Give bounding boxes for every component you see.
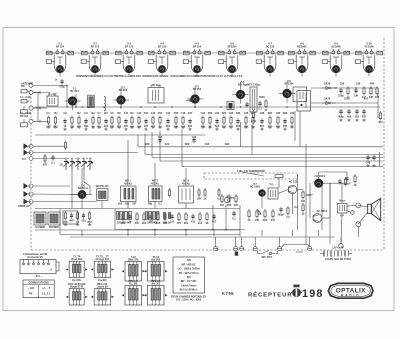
lower band connecting wire [115, 229, 245, 231]
ground [77, 126, 81, 129]
resistor R28 10K [244, 116, 249, 129]
PU coupling parts [43, 154, 48, 166]
input filter box C1 [47, 96, 58, 106]
capacitor 10K [354, 88, 359, 98]
resistor 470 [177, 212, 182, 225]
resistor 1K out [353, 174, 356, 187]
legend transformer T2 T3 T7 [91, 261, 114, 277]
legend transformer MF3-LO [122, 286, 146, 306]
svg-text:330: 330 [283, 125, 288, 128]
chassis terminal [253, 247, 257, 251]
ground [260, 128, 264, 131]
left lower resistor group [63, 211, 68, 224]
svg-text:4K7: 4K7 [378, 121, 383, 124]
svg-text:AC184K: AC184K [331, 45, 341, 48]
capacitor C24 5p6 [215, 118, 220, 128]
ground [229, 126, 233, 129]
svg-text:10K: 10K [369, 96, 374, 99]
svg-text:AC 132K: AC 132K [250, 186, 260, 189]
ground [244, 126, 248, 129]
svg-text:AC185K: AC185K [364, 45, 374, 48]
svg-text:1M: 1M [132, 203, 135, 206]
chassis dashed border right [383, 38, 385, 250]
svg-text:1K1: 1K1 [355, 115, 360, 118]
diode bias [258, 210, 261, 214]
capacitor C9 2K2 [104, 118, 109, 128]
tuning core V-4 [158, 65, 165, 72]
INT POT dark square [235, 252, 238, 256]
svg-text:COUPLAGE DE PUSH: COUPLAGE DE PUSH [325, 258, 351, 261]
svg-text:P.U.: P.U. [22, 158, 27, 161]
svg-text:4M7: 4M7 [69, 219, 74, 222]
svg-text:1K: 1K [63, 125, 66, 128]
legend transformer MF1-115 [91, 289, 114, 305]
speaker terminals [356, 203, 361, 208]
capacitor C30 4K7 [260, 118, 265, 128]
svg-text:GO : 1050 à 2000m: GO : 1050 à 2000m [178, 268, 201, 271]
svg-text:R15: R15 [174, 112, 179, 115]
diode mid [190, 99, 194, 102]
trimmer unit V-2 BF 173 [81, 43, 108, 73]
svg-text:R20: R20 [145, 143, 150, 146]
svg-text:C.L. CAD: C.L. CAD [20, 96, 31, 99]
terminal [29, 106, 33, 110]
bus vertical right [379, 152, 381, 167]
resistor 10K [369, 86, 374, 99]
commutations table [23, 280, 54, 298]
trimmer unit V-7 BC 158 [256, 43, 283, 73]
commutateur pin box [20, 260, 56, 274]
trimmer unit V-1 BF 254 [46, 43, 73, 73]
svg-text:5p6: 5p6 [215, 125, 220, 128]
vertical wire to T-1 [75, 94, 77, 107]
svg-text:C11: C11 [124, 112, 129, 115]
svg-text:C20: C20 [201, 112, 206, 115]
ground [137, 126, 141, 129]
resistor R4 150 [70, 116, 75, 129]
tuning core V-7 [266, 65, 273, 72]
ground [362, 119, 366, 122]
wire driver base chain [278, 190, 288, 194]
svg-text:AC 184 K: AC 184 K [315, 175, 326, 178]
svg-text:OA79: OA79 [324, 98, 331, 101]
wire AC184 to transformer [318, 172, 320, 179]
trimmer unit V-6 BF2254 [218, 43, 245, 73]
svg-text:C36: C36 [340, 83, 345, 86]
svg-text:AM 302: AM 302 [151, 282, 160, 285]
svg-text:+2, ←5: +2, ←5 [42, 287, 51, 290]
resistor R17 1n [159, 116, 162, 129]
svg-text:Prise: Prise [339, 200, 346, 203]
ground [70, 126, 74, 129]
IF coil box [88, 95, 95, 107]
svg-text:C22: C22 [215, 112, 220, 115]
ratio detector transformer [293, 87, 307, 102]
terminal link vertical [37, 93, 39, 122]
svg-text:500V: 500V [259, 96, 265, 99]
terminal [29, 119, 33, 123]
terminal [29, 144, 33, 148]
resistor R32 47K [276, 116, 281, 129]
resistor 47K [135, 212, 140, 225]
svg-text:47K: 47K [234, 204, 239, 207]
capacitor C21 330 [188, 118, 193, 128]
svg-text:Orange 361: Orange 361 [95, 258, 109, 261]
ground [188, 128, 192, 131]
svg-text:C16: C16 [166, 112, 171, 115]
cadre GO coil [21, 119, 28, 127]
resistor 2K2 [142, 212, 147, 225]
svg-text:C24: C24 [205, 143, 210, 146]
ground [283, 128, 287, 131]
resistor 8K2 [184, 212, 189, 225]
cap C46 [372, 155, 375, 161]
ground [54, 126, 58, 129]
ground [117, 126, 121, 129]
tuning core V-5 [193, 65, 200, 72]
bus end caps [366, 155, 371, 165]
resistor R2 8K2 [53, 116, 58, 129]
ground [97, 126, 101, 129]
svg-text:INT. POT.: INT. POT. [262, 256, 273, 259]
svg-text:BF 254: BF 254 [193, 88, 202, 91]
resistor R13 5p6 [130, 116, 135, 129]
gang wires [33, 152, 138, 154]
legend transformer T-16 [122, 262, 146, 282]
speaker wires [358, 205, 367, 207]
svg-text:1K: 1K [247, 219, 250, 222]
chassis dashed border left [30, 82, 32, 250]
svg-text:1K: 1K [203, 197, 206, 200]
raised wire segment [282, 245, 284, 248]
driver transformer box [268, 188, 278, 199]
bottom long wire [70, 236, 335, 238]
resistor R20 1n5 [181, 116, 186, 129]
resistor R29 1n [252, 116, 255, 129]
rail lower [35, 134, 205, 136]
boxed resistor group 1 [117, 212, 132, 220]
main supply rail [35, 106, 380, 108]
wire thermistor connect [240, 172, 264, 177]
ground [84, 128, 88, 131]
svg-text:R21: R21 [222, 112, 227, 115]
resistor R26 470 [229, 116, 234, 129]
capacitor C12 47K [124, 118, 129, 128]
svg-text:MF : 455 KC: MF : 455 KC [182, 263, 197, 266]
svg-text:4K7: 4K7 [260, 125, 265, 128]
speaker [368, 198, 381, 220]
svg-text:C30: C30 [276, 112, 281, 115]
extra lower mid components [197, 188, 202, 200]
resistor pair 3 [164, 213, 166, 219]
thermistor inside dashed box [275, 175, 283, 178]
bus line 3 [152, 157, 383, 159]
svg-text:470: 470 [271, 219, 276, 222]
svg-text:0,1: 0,1 [232, 217, 236, 220]
svg-text:0,1: 0,1 [158, 203, 162, 206]
svg-text:R22: R22 [185, 143, 190, 146]
gang routing wires [71, 170, 73, 209]
svg-text:C26: C26 [244, 112, 249, 115]
trimmer unit V-3 BF 175 [115, 43, 142, 73]
svg-text:BC 158: BC 158 [266, 45, 275, 48]
svg-text:C48: C48 [366, 161, 371, 164]
bus line 4 [160, 160, 383, 162]
svg-text:R17: R17 [188, 112, 193, 115]
svg-text:R11: R11 [144, 112, 149, 115]
legend transformer T1 T4 [66, 261, 88, 277]
svg-text:C32: C32 [290, 112, 295, 115]
svg-text:455 Kc: 455 Kc [182, 182, 191, 185]
cap 0,1 lower [232, 211, 236, 221]
upper rail segment [33, 85, 67, 87]
detector junction dots [335, 87, 336, 88]
left lower grounds [64, 223, 68, 226]
driver transformer HP [337, 203, 347, 213]
antenna coil symbol left 2 [21, 100, 29, 103]
volume pot [224, 197, 229, 202]
legend transformer MF3 LO-AM [144, 286, 168, 306]
junction dots [127, 229, 129, 231]
detector diode D1 [326, 87, 330, 90]
pickup jack symbol [296, 251, 303, 253]
capacitor 1n [128, 214, 132, 224]
spring coil [104, 97, 106, 111]
svg-text:C17: C17 [158, 136, 163, 139]
svg-text:100μF: 100μF [277, 213, 285, 216]
svg-text:4,5/4980: 4,5/4980 [35, 226, 45, 229]
lower rail top [35, 208, 240, 210]
cap C17 [158, 137, 161, 143]
ground [166, 128, 170, 131]
svg-text:R23: R23 [236, 112, 241, 115]
svg-text:AC 132: AC 132 [289, 180, 298, 183]
svg-text:C24: C24 [229, 112, 234, 115]
vertical junction wire [66, 86, 68, 108]
svg-text:2K2: 2K2 [263, 219, 268, 222]
tuning gang capacitor block [59, 158, 93, 171]
tuning core V-3 [125, 65, 132, 72]
cap 500 [245, 102, 248, 108]
tuning core V-8 [298, 65, 305, 72]
lower band frame vertical left [59, 209, 61, 235]
svg-text:BF 175: BF 175 [125, 45, 134, 48]
resistor R31 2K2 [268, 116, 273, 129]
svg-text:47K: 47K [135, 222, 140, 225]
ground [208, 126, 212, 129]
ground [236, 128, 240, 131]
svg-text:455 Kc: 455 Kc [151, 182, 160, 185]
svg-text:198: 198 [302, 288, 324, 300]
resistor mid [168, 188, 170, 198]
resistor R25 2n2 [222, 116, 227, 129]
chassis terminal [214, 247, 218, 251]
svg-text:MF2 C Rge: MF2 C Rge [247, 84, 261, 87]
detector rail [311, 87, 378, 89]
svg-text:AC 185 K: AC 185 K [317, 210, 328, 213]
resistor 4K7 [220, 194, 225, 207]
svg-text:0,1: 0,1 [258, 107, 262, 110]
osc box to rail [101, 201, 103, 209]
svg-text:Jne Blc: Jne Blc [98, 279, 108, 282]
resistor 4K7 [121, 212, 126, 225]
svg-text:R40: R40 [370, 83, 375, 86]
resistor 47K [234, 194, 239, 207]
ground [124, 128, 128, 131]
svg-text:AM: AM [187, 259, 191, 262]
capacitor C27 1K5 [236, 118, 241, 128]
svg-text:BF 254: BF 254 [119, 89, 128, 92]
resistor R7 1n [92, 116, 95, 129]
tall switch box [250, 87, 257, 112]
resistor R4 [64, 141, 66, 151]
trimmer unit V-9 AC184K [322, 43, 349, 73]
cap C19 [192, 137, 195, 143]
svg-text:BC/4984: BC/4984 [49, 226, 59, 229]
svg-text:2K2: 2K2 [166, 125, 171, 128]
svg-text:TENSIONS MESUREES AU VOLTME: TENSIONS MESUREES AU VOLTMETRE A LAMPE E… [76, 75, 243, 78]
terminal [29, 83, 33, 87]
capacitor 488p [338, 109, 344, 119]
svg-text:Brun 364: Brun 364 [71, 258, 82, 261]
svg-text:0,5: 0,5 [217, 197, 221, 200]
svg-text:C38: C38 [356, 83, 361, 86]
terminal [29, 200, 33, 204]
svg-text:8K2: 8K2 [184, 222, 189, 225]
legend transformer OSC [66, 289, 88, 305]
resistor R19 10K [174, 116, 179, 129]
svg-text:1K0 2K2: 1K0 2K2 [147, 222, 157, 225]
svg-text:1K5: 1K5 [118, 203, 123, 206]
resistor R1 0,47 [46, 116, 51, 129]
svg-text:4K7: 4K7 [220, 204, 225, 207]
svg-text:PO GO: PO GO [20, 115, 28, 118]
svg-text:4n7: 4n7 [364, 98, 369, 101]
resistor 10K [163, 212, 168, 225]
svg-text:← P.U. →: ← P.U. → [33, 275, 44, 278]
lower rail 2 [60, 234, 240, 236]
svg-text:1K: 1K [205, 222, 208, 225]
svg-text:BF 173: BF 173 [91, 45, 100, 48]
capacitor 47K [362, 109, 367, 119]
svg-text:1K: 1K [353, 184, 356, 187]
svg-text:1K5: 1K5 [236, 125, 241, 128]
capacitor 330 [149, 214, 154, 224]
svg-text:47Ω: 47Ω [251, 120, 256, 123]
detector downwires [299, 111, 301, 147]
terminal risers [215, 237, 217, 247]
svg-text:FM: FM [187, 276, 191, 279]
svg-text:10: 10 [59, 163, 63, 167]
chassis terminal [278, 247, 282, 251]
push coupling caps [320, 251, 352, 257]
cap at antenna input [59, 79, 65, 89]
svg-text:455 Kc: 455 Kc [124, 182, 133, 185]
svg-text:470p: 470p [59, 85, 65, 88]
svg-text:2K2: 2K2 [125, 203, 130, 206]
svg-text:C28: C28 [260, 112, 265, 115]
ground [144, 128, 148, 131]
svg-text:COMMUTATIONS: COMMUTATIONS [28, 281, 49, 284]
svg-text:220p: 220p [344, 98, 350, 101]
ground [47, 126, 51, 129]
ground [63, 128, 67, 131]
svg-text:R13: R13 [158, 112, 163, 115]
svg-text:10K: 10K [354, 94, 359, 97]
resistor R23 1K [208, 116, 211, 129]
capacitor 4K7 [212, 214, 217, 224]
svg-text:Bal 308: Bal 308 [151, 258, 160, 261]
rail stub [33, 92, 50, 94]
bus line 2 [145, 154, 383, 156]
gang feed terminal [29, 157, 33, 161]
svg-text:10K: 10K [84, 125, 89, 128]
capacitor 1n5 [170, 214, 175, 224]
right rail [377, 88, 379, 118]
resistor R14 1n5 [137, 116, 142, 129]
signal verticals from bus to MF boxes [127, 140, 129, 186]
boxed resistor group 2 [146, 212, 160, 220]
resistor R22 47K [201, 116, 206, 129]
terminal [29, 151, 33, 155]
bus line 1 [138, 146, 383, 148]
junction dots rail [66, 106, 68, 108]
transformer small box [227, 102, 234, 110]
resistor 1K5 [156, 212, 161, 225]
svg-text:FM: FM [21, 85, 25, 88]
svg-text:Cadre Ferrite: Cadre Ferrite [181, 284, 197, 287]
svg-text:POT: POT [229, 197, 235, 200]
svg-text:2K2: 2K2 [87, 221, 92, 224]
svg-text:C22: C22 [165, 143, 170, 146]
chassis terminal [308, 247, 312, 251]
cadre ferrite left stubs [33, 91, 40, 93]
svg-text:488p: 488p [338, 115, 344, 118]
tuning core V-1 [56, 65, 63, 72]
tuning core V-9 [332, 65, 339, 72]
transformer to terminal wires [347, 204, 356, 207]
mid cluster extras [258, 101, 262, 111]
resistor R34 1K [290, 116, 293, 129]
spec table [173, 257, 205, 293]
resistors output stage [301, 190, 306, 203]
svg-text:T-8: T-8 [269, 184, 273, 187]
electrolytic C40b [338, 179, 341, 185]
ground [276, 126, 280, 129]
ground [201, 126, 205, 129]
svg-text:R27: R27 [268, 112, 273, 115]
svg-text:BC169C: BC169C [297, 45, 307, 48]
svg-text:(Consulte M): (Consulte M) [27, 256, 42, 259]
svg-text:BF254-A: BF254-A [78, 187, 88, 190]
svg-text:FM: FM [29, 293, 33, 296]
ground [268, 126, 272, 129]
resistor 2K2 [227, 194, 232, 207]
ground [347, 119, 351, 122]
output coupling cap C40 [343, 176, 351, 186]
resistor R10 330 [110, 116, 115, 129]
ground [355, 119, 359, 122]
crown logo glyph [291, 284, 302, 297]
chassis terminal [234, 247, 238, 251]
output stage frame wire [297, 174, 299, 230]
svg-text:10K: 10K [255, 219, 260, 222]
svg-text:2N277: 2N277 [305, 194, 313, 197]
svg-text:R24: R24 [225, 143, 230, 146]
resistor R5 470 [77, 116, 82, 129]
svg-text:K795: K795 [222, 291, 234, 296]
resistor R8 47p [97, 116, 102, 129]
